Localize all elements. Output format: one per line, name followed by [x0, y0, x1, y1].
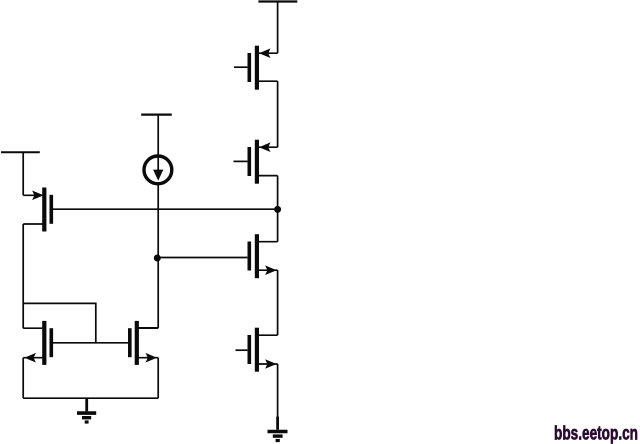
svg-text:bbs.eetop.cn: bbs.eetop.cn	[554, 423, 638, 444]
